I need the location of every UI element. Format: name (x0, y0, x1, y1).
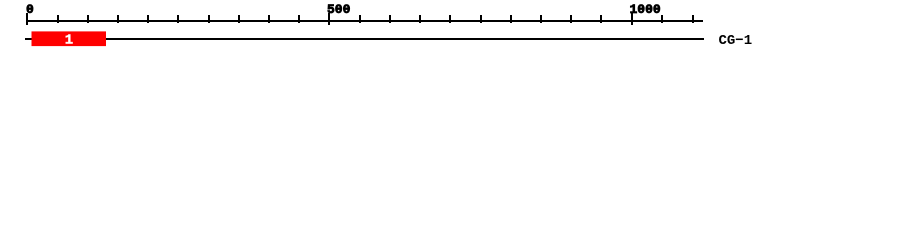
background (0, 0, 900, 58)
minor ticks (57, 15, 694, 23)
minor tick at x=540 (540, 15, 542, 23)
minor tick at x=600 (600, 15, 602, 23)
minor tick at x=268 (268, 15, 270, 23)
minor tick at x=661 (661, 15, 663, 23)
minor tick at x=117 (117, 15, 119, 23)
minor tick at x=692 (692, 15, 694, 23)
minor tick at x=389 (389, 15, 391, 23)
svg-text:1: 1 (65, 33, 73, 49)
minor tick at x=510 (510, 15, 512, 23)
ruler axis line (27, 20, 703, 22)
minor tick at x=480 (480, 15, 482, 23)
svg-text:0: 0 (26, 2, 34, 17)
feature backbone line (25, 38, 704, 40)
minor tick at x=449 (449, 15, 451, 23)
major tick 1000 (631, 13, 633, 25)
feature box 1 (red) (32, 31, 107, 46)
minor tick at x=419 (419, 15, 421, 23)
svg-text:CG−1: CG−1 (719, 33, 753, 49)
minor tick at x=57 (57, 15, 59, 23)
minor tick at x=147 (147, 15, 149, 23)
minor tick at x=359 (359, 15, 361, 23)
minor tick at x=177 (177, 15, 179, 23)
major tick 500 (328, 13, 330, 25)
minor tick at x=87 (87, 15, 89, 23)
minor tick at x=238 (238, 15, 240, 23)
ruler left end bar (0 tick) (26, 13, 28, 25)
svg-text:500: 500 (327, 2, 351, 17)
minor tick at x=298 (298, 15, 300, 23)
minor tick at x=208 (208, 15, 210, 23)
svg-text:1000: 1000 (630, 2, 661, 17)
minor tick at x=570 (570, 15, 572, 23)
